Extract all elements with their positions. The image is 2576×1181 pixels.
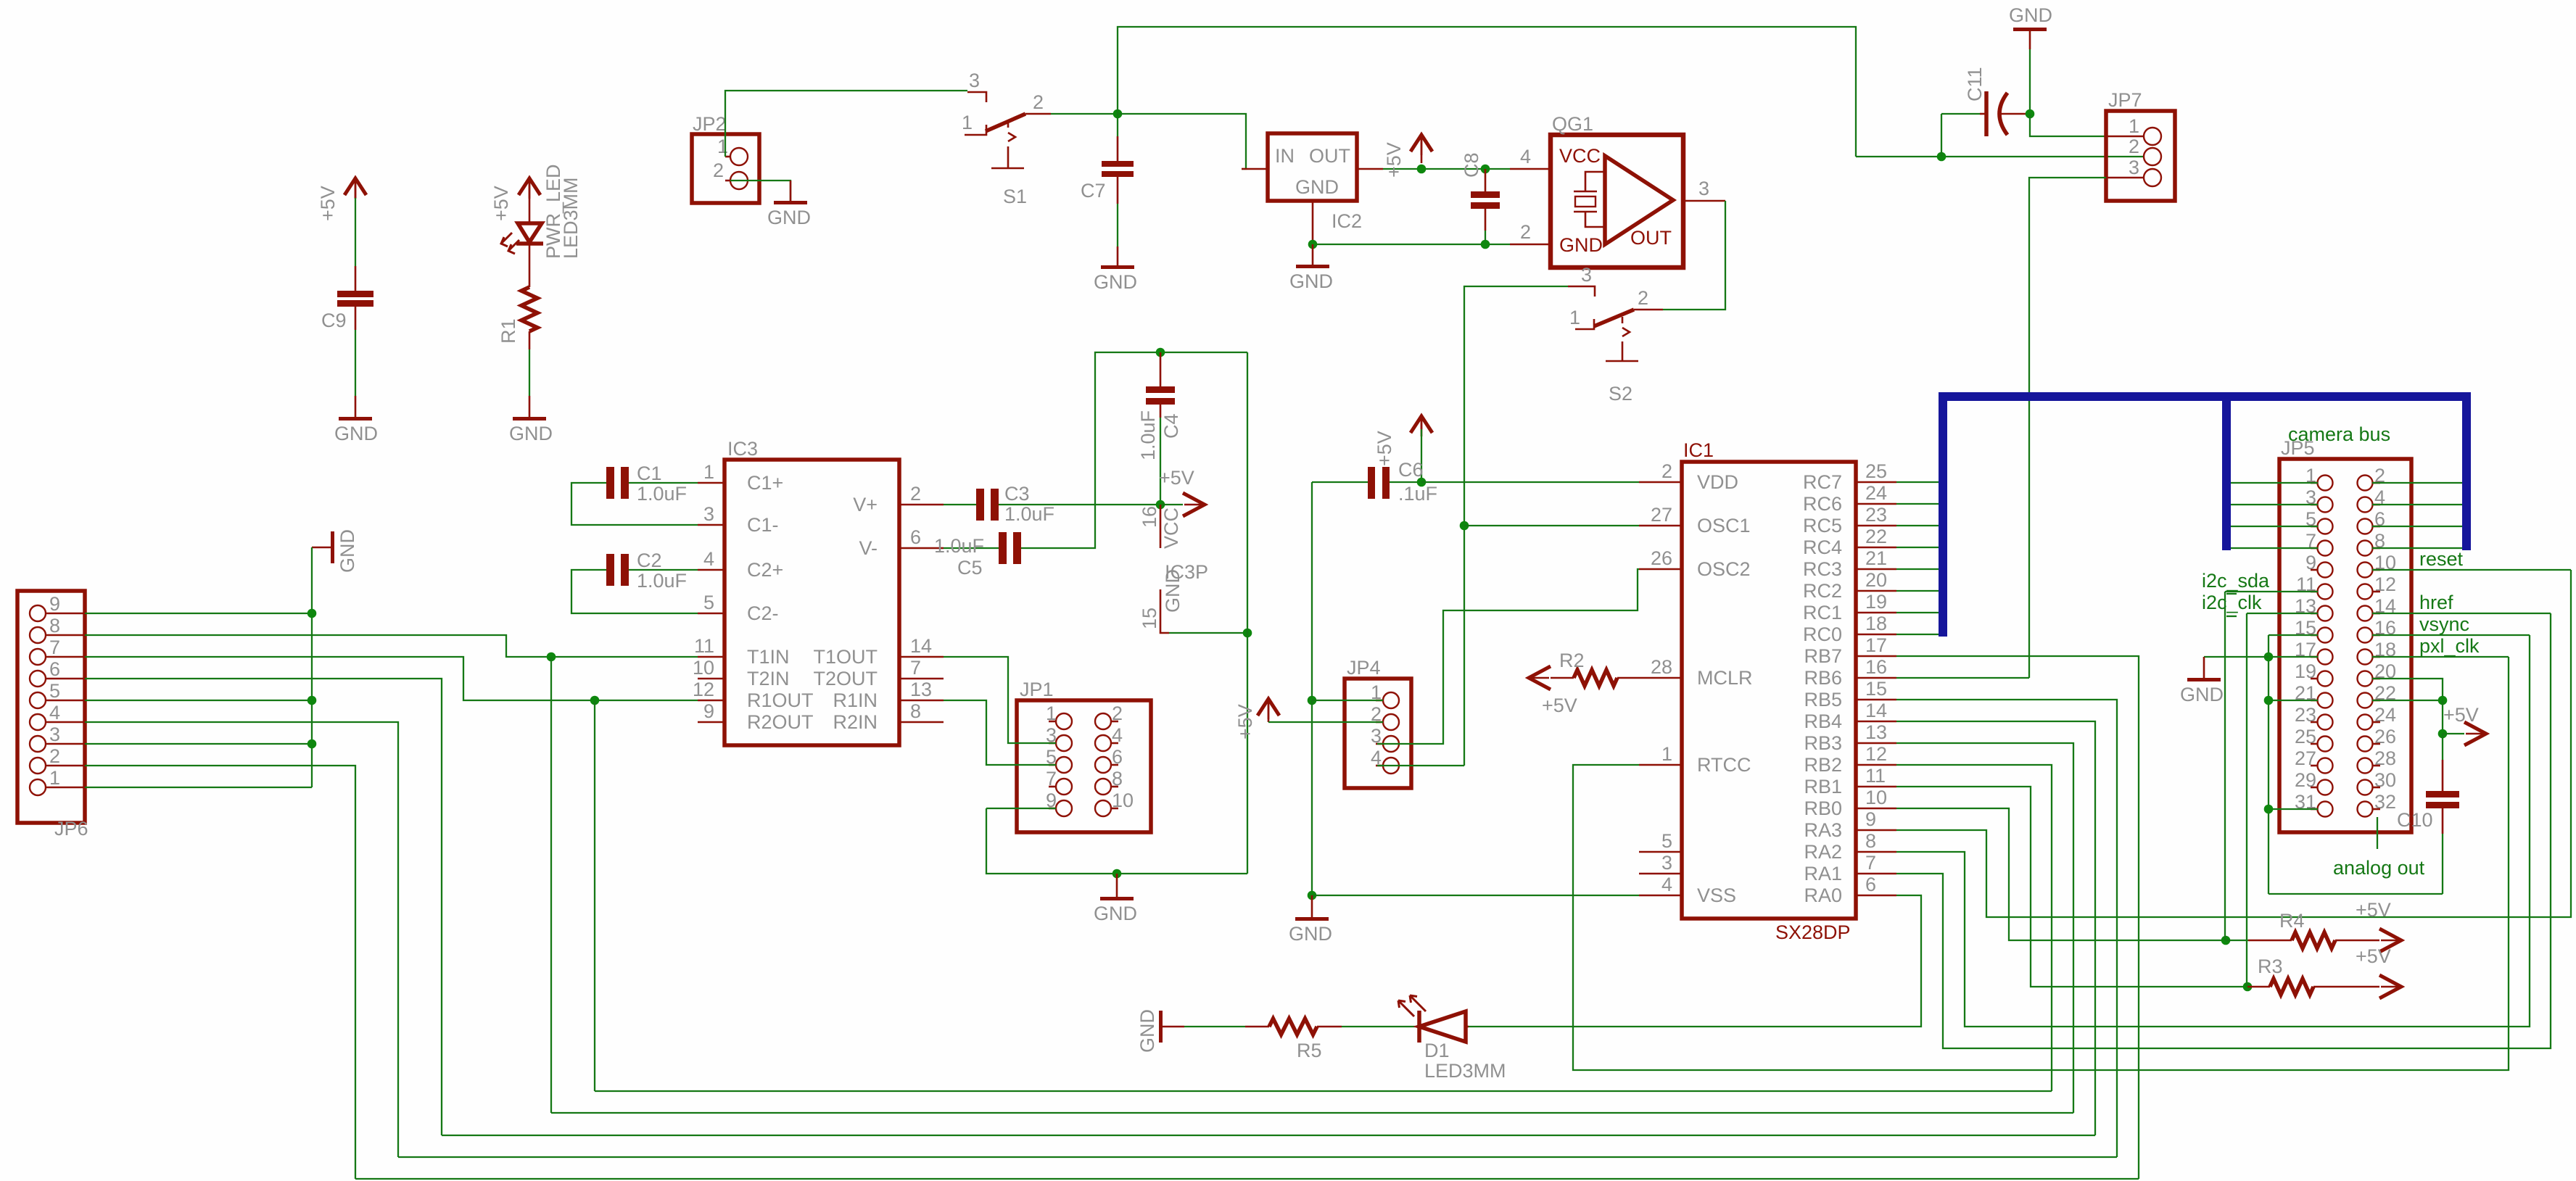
IC3 right pins: [813, 483, 944, 733]
svg-text:RB0: RB0: [1804, 797, 1842, 819]
svg-text:V-: V-: [859, 537, 878, 559]
svg-text:C11: C11: [1964, 67, 1986, 101]
wire T1IN column: [550, 657, 552, 1113]
svg-text:C2: C2: [637, 550, 662, 571]
svg-text:JP6: JP6: [54, 818, 88, 840]
ground GND (IC2): [1289, 244, 1333, 292]
svg-text:GND: GND: [1094, 903, 1137, 924]
svg-text:RA2: RA2: [1804, 841, 1842, 863]
svg-text:R5: R5: [1297, 1040, 1322, 1061]
wire GND return: [2269, 893, 2443, 895]
resistor R2 with +5V arrow: [1529, 650, 1639, 716]
wire VSS rail: [1312, 895, 1639, 896]
wire rail to JP7.2: [1856, 156, 2144, 157]
junction: [1308, 696, 1317, 705]
svg-text:GND: GND: [509, 423, 553, 444]
svg-text:GND: GND: [1559, 234, 1603, 256]
LED PWR_LED LED3MM: [501, 164, 582, 259]
svg-text:27: 27: [1651, 504, 1672, 526]
junction: [1308, 891, 1317, 900]
wire RB1 net: [1896, 787, 2247, 987]
wire RB0 net: [1896, 808, 2226, 940]
svg-text:vsync: vsync: [2419, 613, 2469, 635]
resistor R5: [1245, 1019, 1342, 1061]
svg-text:IC2: IC2: [1332, 210, 1362, 232]
junction: [307, 609, 317, 618]
switch S1: [962, 70, 1051, 207]
ground GND (JP5): [2180, 657, 2269, 705]
wire rail T1IN-RB3: [551, 1112, 2073, 1114]
svg-text:OUT: OUT: [1630, 227, 1672, 249]
wire: [1117, 204, 1118, 246]
connector JP6: [17, 591, 88, 840]
svg-text:3: 3: [703, 503, 714, 525]
svg-text:23: 23: [1865, 504, 1887, 526]
svg-text:2: 2: [49, 745, 60, 767]
svg-text:R3: R3: [2258, 956, 2283, 977]
svg-text:C1: C1: [637, 463, 662, 484]
svg-text:20: 20: [1865, 569, 1887, 591]
wire GND rail (IC2/C8/QG1): [1313, 244, 1510, 245]
IC IC3: [724, 438, 899, 745]
net label reset: [2372, 548, 2571, 570]
svg-text:7: 7: [49, 637, 60, 658]
wires JP5 pins 2-8 to bus: [2372, 483, 2462, 548]
IC3 left pins: [693, 461, 814, 733]
svg-text:8: 8: [1865, 830, 1876, 852]
wire: [529, 244, 531, 287]
svg-text:21: 21: [1865, 547, 1887, 569]
svg-text:+5V: +5V: [1234, 704, 1256, 739]
wire QG1.OUT to S2.2: [1663, 201, 1725, 310]
svg-text:R1: R1: [498, 318, 519, 344]
wire junction to IC2.IN: [1118, 114, 1246, 169]
svg-text:GND: GND: [1295, 176, 1339, 198]
wire JP6 gnd trunk: [311, 547, 313, 787]
wire: [1184, 1026, 1245, 1027]
resistor R1: [498, 287, 537, 344]
svg-text:+5V: +5V: [2443, 704, 2479, 726]
power +5V arrow (C9): [317, 178, 366, 221]
svg-text:+5V: +5V: [1374, 431, 1395, 466]
svg-text:15: 15: [1865, 678, 1887, 700]
svg-text:2: 2: [713, 159, 724, 181]
wire JP4.4 to OSC1 column: [1377, 765, 1464, 766]
svg-text:17: 17: [1865, 634, 1887, 656]
svg-text:RA0: RA0: [1804, 884, 1842, 906]
svg-text:GND: GND: [1094, 271, 1137, 293]
svg-text:V+: V+: [853, 494, 878, 515]
svg-text:C6: C6: [1398, 459, 1424, 481]
svg-text:5: 5: [49, 680, 60, 702]
junction: [2026, 109, 2035, 119]
svg-text:9: 9: [703, 700, 714, 722]
svg-text:1: 1: [1569, 307, 1580, 328]
wire JP5.17: [2269, 635, 2318, 894]
wire: [529, 331, 531, 396]
svg-text:VSS: VSS: [1697, 884, 1736, 906]
svg-text:1.0uF: 1.0uF: [1004, 503, 1054, 525]
net label pxl_clk: [2372, 635, 2509, 657]
junction: [307, 739, 317, 749]
power +5V arrow (IC3P VCC): [1159, 467, 1205, 516]
svg-text:10: 10: [693, 657, 714, 679]
wire VDD: [1421, 481, 1639, 483]
svg-text:9: 9: [1865, 808, 1876, 830]
wire JP6.4 down: [85, 722, 398, 1157]
wire JP6.6 down: [85, 679, 442, 1135]
svg-text:GND: GND: [334, 423, 378, 444]
wire rail JP6.2-RB7: [355, 1178, 2139, 1180]
svg-text:5: 5: [703, 592, 714, 613]
svg-text:C7: C7: [1081, 180, 1106, 202]
power part IC3P: [1139, 505, 1247, 633]
svg-text:C10: C10: [2397, 809, 2433, 831]
connector JP4: [1345, 657, 1411, 788]
svg-text:13: 13: [910, 679, 932, 700]
wire JP2.2 to GND: [730, 181, 790, 201]
svg-text:8: 8: [910, 700, 921, 722]
svg-text:C2+: C2+: [747, 559, 783, 581]
regulator IC2: [1242, 133, 1383, 244]
svg-text:R2IN: R2IN: [833, 711, 878, 733]
svg-text:RC4: RC4: [1803, 536, 1842, 558]
svg-text:S2: S2: [1609, 383, 1632, 405]
svg-text:RC2: RC2: [1803, 580, 1842, 602]
svg-text:15: 15: [1139, 608, 1160, 629]
svg-text:13: 13: [1865, 721, 1887, 743]
junction: [1308, 240, 1490, 249]
svg-text:1: 1: [962, 112, 973, 133]
capacitor C6: [1312, 459, 1437, 505]
power +5V arrow (PWR_LED): [490, 178, 540, 221]
wire RB5 net: [1896, 700, 2117, 1157]
svg-text:RC7: RC7: [1803, 471, 1842, 493]
wire JP6.3: [85, 743, 312, 745]
svg-text:RB2: RB2: [1804, 754, 1842, 776]
svg-text:GND: GND: [337, 529, 358, 573]
switch S2: [1568, 264, 1663, 405]
net label i2c_clk: [2202, 592, 2318, 987]
capacitor C9: [321, 266, 373, 331]
svg-text:D1: D1: [1424, 1040, 1450, 1061]
capacitor C1: [571, 463, 698, 525]
junction: [1113, 109, 1123, 119]
svg-text:1: 1: [717, 136, 728, 157]
wire RA3 net (reset): [1896, 570, 2571, 917]
wire RTCC net (pxl_clk): [1573, 657, 2509, 1070]
wire RB2 net: [1896, 765, 2052, 1091]
wire: [1311, 700, 1313, 895]
junction: [1112, 869, 1122, 879]
wire JP5.22: [2372, 700, 2443, 701]
svg-text:C3: C3: [1004, 483, 1030, 505]
capacitor C7: [1081, 114, 1134, 204]
svg-text:JP1: JP1: [1020, 679, 1054, 700]
power +5V arrow (JP5): [2438, 704, 2486, 745]
wire: [1342, 1026, 1416, 1027]
svg-text:3: 3: [2129, 157, 2139, 178]
svg-text:QG1: QG1: [1552, 113, 1593, 135]
svg-text:2: 2: [910, 483, 921, 505]
ground GND (JP1): [1094, 874, 1137, 924]
svg-text:6: 6: [910, 526, 921, 548]
svg-text:T1OUT: T1OUT: [813, 646, 878, 668]
svg-text:GND: GND: [2009, 4, 2052, 26]
svg-text:RC1: RC1: [1803, 602, 1842, 623]
svg-text:R1IN: R1IN: [833, 689, 878, 711]
svg-text:RA1: RA1: [1804, 863, 1842, 884]
net label href: [2372, 592, 2551, 613]
svg-text:25: 25: [1865, 460, 1887, 482]
capacitor C3: [944, 483, 1160, 525]
svg-text:GND: GND: [1289, 923, 1332, 945]
svg-text:C1-: C1-: [747, 514, 779, 536]
svg-text:GND: GND: [1289, 270, 1333, 292]
junction: [1481, 165, 1490, 174]
connector JP5: [2279, 423, 2411, 832]
svg-text:i2c_clk: i2c_clk: [2202, 592, 2262, 613]
svg-text:RTCC: RTCC: [1697, 754, 1751, 776]
svg-text:6: 6: [49, 658, 60, 680]
svg-text:4: 4: [703, 548, 714, 570]
power +5V arrow (JP4.2): [1234, 699, 1383, 739]
svg-text:JP4: JP4: [1347, 657, 1381, 679]
wire junction up to C11: [1941, 114, 1942, 157]
svg-text:2: 2: [1033, 91, 1044, 113]
ground GND (C7): [1094, 246, 1137, 293]
svg-text:reset: reset: [2419, 548, 2464, 570]
junction: [2243, 982, 2253, 992]
svg-text:10: 10: [1865, 787, 1887, 808]
svg-text:RC0: RC0: [1803, 623, 1842, 645]
svg-text:4: 4: [1520, 146, 1531, 167]
svg-text:12: 12: [693, 679, 714, 700]
wire rail JP6.6-RB4: [442, 1135, 2095, 1136]
wire JP5.31: [2269, 808, 2318, 810]
wire S1.2 to junction: [1051, 113, 1118, 115]
svg-text:R1OUT: R1OUT: [747, 689, 814, 711]
wire: [355, 198, 356, 266]
svg-text:GND: GND: [767, 207, 811, 228]
svg-text:+5V: +5V: [317, 186, 339, 221]
IC1 left pins: [1639, 460, 1753, 906]
junction: [2264, 652, 2274, 662]
wire JP1.9: [986, 808, 1056, 809]
svg-text:+5V: +5V: [2356, 899, 2391, 921]
connector JP7: [2106, 89, 2175, 201]
svg-text:MCLR: MCLR: [1697, 667, 1753, 689]
svg-text:SX28DP: SX28DP: [1775, 921, 1851, 943]
wire R1IN to JP1.5: [944, 700, 1056, 765]
ground GND (JP4): [1289, 895, 1332, 945]
svg-text:JP2: JP2: [693, 113, 727, 135]
wire OSC1: [1464, 525, 1639, 526]
wires JP5 pins 1-7 to bus: [2231, 483, 2318, 548]
LED D1 LED3MM: [1398, 995, 1506, 1082]
svg-text:OSC1: OSC1: [1697, 515, 1751, 536]
capacitor C5: [934, 352, 1247, 579]
svg-text:RB5: RB5: [1804, 689, 1842, 710]
connector JP1: [1017, 679, 1151, 832]
wire JP6.7 to R1OUT: [85, 657, 698, 700]
svg-text:VCC: VCC: [1559, 145, 1601, 167]
svg-text:T2OUT: T2OUT: [813, 668, 878, 689]
net label analog out: [2333, 817, 2425, 879]
svg-text:16: 16: [1865, 656, 1887, 678]
wire JP6.5: [85, 700, 312, 701]
svg-text:7: 7: [910, 657, 921, 679]
svg-text:11: 11: [1865, 765, 1886, 787]
svg-text:26: 26: [1651, 547, 1672, 569]
wire C6 left column: [1311, 482, 1313, 700]
svg-text:18: 18: [1865, 613, 1887, 634]
wire JP4.3 to OSC2: [1377, 569, 1639, 744]
wire: [355, 330, 356, 396]
svg-text:camera bus: camera bus: [2288, 423, 2390, 445]
wire JP2.1 to S1.3: [725, 91, 967, 157]
svg-text:LED3MM: LED3MM: [560, 177, 582, 259]
svg-text:C5: C5: [957, 557, 983, 579]
svg-text:2: 2: [1638, 287, 1648, 309]
ground GND (JP2): [767, 181, 811, 228]
svg-text:4: 4: [49, 702, 60, 724]
wire JP6.1: [85, 787, 312, 788]
svg-text:RB3: RB3: [1804, 732, 1842, 754]
svg-text:analog out: analog out: [2333, 857, 2425, 879]
wire RB6 net: [1896, 677, 2029, 679]
wire T1OUT to JP1.3: [944, 657, 1056, 743]
svg-text:RC6: RC6: [1803, 493, 1842, 515]
wire rail JP6.4-RB5: [398, 1156, 2117, 1158]
svg-text:16: 16: [1139, 506, 1160, 528]
junction: [2264, 696, 2274, 705]
ground GND (C11): [2009, 4, 2052, 114]
bus camera bus: [1943, 397, 2466, 637]
svg-text:OSC2: OSC2: [1697, 558, 1751, 580]
resistor R4 with +5V arrow: [2226, 899, 2401, 952]
IC IC1 SX28DP: [1682, 439, 1856, 943]
svg-text:R2: R2: [1559, 650, 1585, 671]
capacitor C11: [1941, 67, 2030, 136]
svg-text:+5V: +5V: [2356, 945, 2391, 967]
junction: [1417, 478, 1427, 487]
svg-text:IC1: IC1: [1683, 439, 1714, 461]
wire JP5.20 down: [2372, 679, 2443, 700]
svg-text:GND: GND: [1162, 569, 1184, 613]
IC1 right pins: [1803, 460, 1896, 906]
svg-text:+5V: +5V: [1383, 142, 1405, 178]
ground GND (R1): [509, 396, 553, 444]
svg-text:href: href: [2419, 592, 2453, 613]
svg-text:T1IN: T1IN: [747, 646, 790, 668]
wire JP6.2 down: [85, 766, 355, 1179]
svg-text:R2OUT: R2OUT: [747, 711, 814, 733]
svg-text:12: 12: [1865, 743, 1887, 765]
svg-text:RB7: RB7: [1804, 645, 1842, 667]
capacitor C4: [1137, 352, 1182, 505]
wire RA0 net (to D1): [1469, 895, 1921, 1027]
svg-text:2: 2: [1661, 460, 1672, 482]
svg-text:C8: C8: [1461, 152, 1482, 178]
svg-text:6: 6: [1865, 874, 1876, 895]
svg-text:1.0uF: 1.0uF: [637, 570, 687, 592]
junction: [1937, 152, 1947, 162]
net label vsync: [2372, 613, 2530, 635]
svg-text:14: 14: [1865, 700, 1887, 721]
svg-text:C9: C9: [321, 310, 347, 331]
wire RB7 net: [1896, 656, 2139, 1179]
svg-text:3: 3: [969, 70, 980, 91]
svg-text:9: 9: [49, 593, 60, 615]
wires RC7-RC0 to bus: [1896, 482, 1939, 634]
ground GND (R5) rotated: [1136, 1009, 1184, 1053]
svg-text:3: 3: [49, 724, 60, 745]
svg-text:3: 3: [1698, 178, 1709, 199]
svg-text:JP7: JP7: [2108, 89, 2142, 111]
svg-text:LED3MM: LED3MM: [1424, 1060, 1506, 1082]
wire RA2 net (vsync): [1896, 635, 2530, 1027]
wire R1OUT column: [594, 700, 595, 1091]
wire JP6.9: [85, 613, 312, 614]
svg-text:C1+: C1+: [747, 472, 783, 494]
wire JP4.1: [1312, 700, 1383, 701]
svg-text:GND: GND: [1136, 1009, 1158, 1053]
wire JP1.9 GND rail: [986, 808, 1247, 874]
svg-text:S1: S1: [1003, 186, 1027, 207]
resistor R3 with +5V arrow: [2247, 945, 2401, 998]
svg-text:5: 5: [1661, 830, 1672, 852]
wire: [2442, 700, 2443, 734]
svg-text:1: 1: [1661, 743, 1672, 765]
junction: [2438, 696, 2448, 705]
svg-text:RC3: RC3: [1803, 558, 1842, 580]
svg-text:1: 1: [703, 461, 714, 483]
svg-text:1.0uF: 1.0uF: [1137, 410, 1159, 460]
wire rail R1OUT-RB2: [595, 1090, 2052, 1092]
junction: [1460, 521, 1469, 531]
svg-text:RB4: RB4: [1804, 710, 1842, 732]
svg-text:28: 28: [1651, 656, 1672, 678]
power +5V arrow (IC2 out): [1383, 135, 1432, 178]
svg-text:RB6: RB6: [1804, 667, 1842, 689]
svg-text:24: 24: [1865, 482, 1887, 504]
svg-text:+5V: +5V: [1159, 467, 1194, 489]
wire JP5.15: [2269, 634, 2318, 636]
capacitor C8: [1461, 152, 1500, 244]
svg-text:1.0uF: 1.0uF: [637, 483, 687, 505]
junction: [2221, 936, 2231, 945]
net label i2c_sda: [2202, 570, 2318, 940]
svg-text:OUT: OUT: [1309, 145, 1350, 167]
wire top rail: [1118, 27, 1856, 157]
svg-text:VDD: VDD: [1697, 471, 1738, 493]
svg-text:1: 1: [2129, 115, 2139, 137]
capacitor C2: [571, 550, 698, 613]
wire JP7.3 to RB6: [2029, 178, 2106, 678]
svg-text:i2c_sda: i2c_sda: [2202, 570, 2270, 592]
svg-text:+5V: +5V: [1542, 695, 1577, 716]
svg-text:1: 1: [49, 767, 60, 789]
svg-text:11: 11: [694, 635, 714, 657]
svg-text:VCC: VCC: [1160, 507, 1182, 549]
junction: [2264, 805, 2274, 814]
svg-text:RC5: RC5: [1803, 515, 1842, 536]
junction: [547, 652, 556, 662]
svg-text:C2-: C2-: [747, 602, 779, 624]
wire JP5.21: [2269, 700, 2318, 701]
svg-text:T2IN: T2IN: [747, 668, 790, 689]
